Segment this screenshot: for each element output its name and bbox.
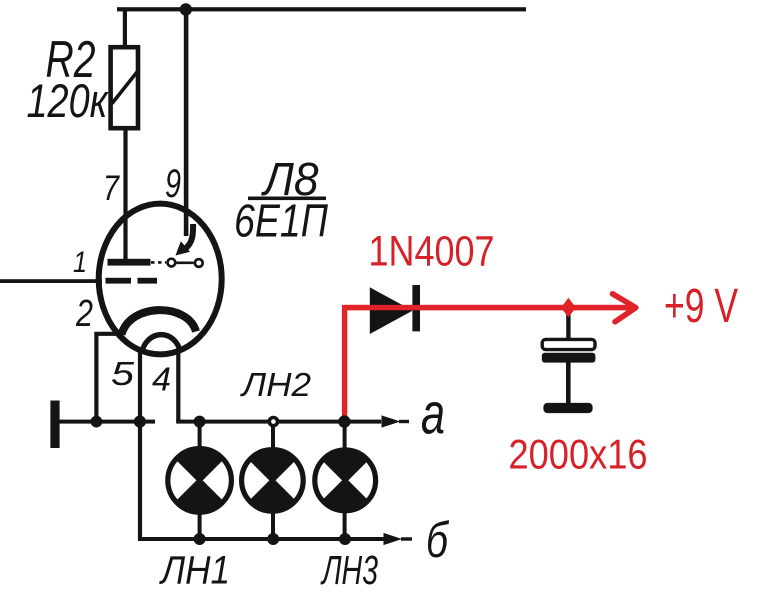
lamp ЛН2 top lead	[271, 422, 275, 449]
svg-text:7: 7	[103, 169, 120, 208]
node dot lamp ЛН1 on bus a	[194, 416, 206, 428]
svg-text:ЛН1: ЛН1	[158, 549, 230, 593]
pin 9 pointer arrow inside tube	[186, 224, 194, 249]
wire from top bus down to resistor R2	[123, 9, 127, 48]
arrow stub after head, bus б	[401, 537, 412, 540]
dash-dot link from anode bar to contact circle	[151, 261, 166, 264]
wire pin 2 from tube lower-left down to ground bus	[96, 334, 118, 420]
grid electrode dashes (pin 1)	[106, 278, 132, 284]
ground chassis bar	[50, 401, 59, 449]
node ring lamp ЛН2 on bus a	[269, 418, 277, 426]
diode cathode bar	[412, 285, 420, 331]
tube U1 envelope ellipse	[99, 204, 222, 355]
contact circle left	[168, 259, 176, 267]
node dot lamp ЛН2 on bus б	[267, 533, 279, 545]
node dot lamp ЛН3 / red wire on bus a	[338, 415, 350, 427]
wire ground bus (pin2 / pin5 net)	[59, 420, 155, 424]
lamp ЛН2	[242, 450, 304, 512]
diode VD (1N4007) body	[370, 287, 413, 334]
lamp ЛН1 top lead	[198, 422, 202, 449]
wire pin 4 from tube bottom down to bus a	[176, 350, 180, 422]
wire pin 9 from top bus junction down into tube	[184, 9, 189, 236]
wire bottom bus б	[138, 537, 385, 541]
node junction of R2 wire and pin-9 wire on top bus	[180, 3, 192, 15]
capacitor negative plate (solid)	[542, 353, 596, 363]
wire bus a from pin 4 to arrow	[176, 420, 381, 424]
contact circle right	[195, 259, 203, 267]
red arrowhead of +9V wire	[613, 294, 636, 322]
svg-text:1N4007: 1N4007	[369, 228, 495, 276]
anode bar electrode (pin 7)	[108, 259, 151, 266]
node dot lamp ЛН3 on bus б	[339, 533, 351, 545]
small bottom dome of tube	[142, 335, 181, 354]
node dot pin2 on ground bus	[91, 416, 103, 428]
lamp ЛН1 bottom lead	[198, 511, 202, 539]
svg-text:а: а	[421, 382, 445, 447]
svg-text:2000x16: 2000x16	[509, 431, 648, 478]
arrow stub after head, bus a	[399, 420, 409, 423]
svg-text:2: 2	[75, 293, 93, 335]
red wire from diode down to bus a at lamp ЛН3	[345, 308, 634, 419]
wire top bus from R2 top to right	[117, 7, 526, 11]
lamp ЛН3	[315, 450, 376, 511]
arrowhead of bus a	[382, 415, 401, 427]
lamp ЛН3 bottom lead	[343, 511, 347, 539]
red node dot at capacitor junction	[561, 298, 576, 318]
svg-text:ЛН3: ЛН3	[320, 547, 378, 593]
fraction bar of tube label	[248, 197, 326, 201]
resistor R2 diagonal slash	[112, 70, 139, 104]
resistor R2 body	[111, 47, 138, 128]
lamp ЛН2 bottom lead	[271, 511, 275, 539]
link between contact circles	[176, 261, 193, 264]
svg-text:5: 5	[111, 355, 135, 392]
node dot lamp ЛН1 on bus б	[194, 533, 206, 545]
svg-text:ЛН2: ЛН2	[240, 366, 311, 403]
capacitor C (2000x16) top stem	[566, 310, 570, 340]
wire grid input from left edge	[0, 279, 102, 283]
lamp ЛН3 top lead	[343, 422, 347, 449]
svg-text:б: б	[426, 512, 449, 568]
capacitor bottom terminal bar	[543, 403, 592, 413]
svg-text:1: 1	[73, 246, 87, 279]
wire pin 5 from tube bottom down to bottom bus б	[138, 350, 142, 539]
wire from resistor R2 bottom to tube pin 7 anode bar	[123, 128, 127, 261]
capacitor bottom stem	[566, 362, 571, 403]
fluorescent screen dome electrode	[122, 310, 197, 334]
svg-text:120к: 120к	[27, 74, 109, 127]
svg-text:9: 9	[165, 162, 181, 206]
red wire +9V feed over diode	[345, 305, 634, 310]
svg-text:+9 V: +9 V	[664, 280, 738, 333]
svg-text:6Е1П: 6Е1П	[234, 195, 329, 247]
arrowhead of bus б	[384, 533, 403, 545]
lamp ЛН1	[168, 449, 232, 513]
node dot pin5 on ground bus	[134, 416, 146, 428]
capacitor positive plate (hollow)	[542, 339, 595, 349]
svg-text:4: 4	[152, 361, 171, 398]
